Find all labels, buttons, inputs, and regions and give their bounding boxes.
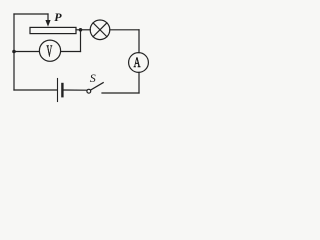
svg-text:A: A (134, 54, 141, 71)
lamp (90, 20, 110, 40)
resistor body of potentiometer P (30, 27, 76, 33)
battery long plate (57, 79, 59, 102)
wire voltmeter to junction drop (61, 51, 81, 53)
node junction at resistor output (79, 28, 83, 32)
switch S blade (91, 83, 104, 90)
wire left rail to battery (14, 89, 57, 91)
potentiometer P slider arrow (45, 14, 50, 27)
node junction on left rail (12, 50, 16, 54)
wire bottom right (102, 92, 139, 94)
wire ammeter down (138, 72, 140, 93)
wire resistor to lamp (76, 29, 90, 31)
wire left rail (13, 14, 15, 90)
wire right drop to ammeter (138, 30, 140, 53)
switch S pivot contact (87, 89, 91, 93)
svg-text:V: V (46, 41, 52, 60)
voltmeter V (39, 40, 60, 61)
wire junction down to voltmeter (80, 30, 82, 52)
wire top to slider (14, 13, 48, 15)
battery short plate (61, 84, 63, 96)
wire lamp to right corner (110, 29, 139, 31)
label V (46, 41, 52, 60)
label A (134, 54, 141, 71)
wire left rail to voltmeter (14, 51, 39, 53)
wire battery to switch (64, 89, 87, 91)
ammeter A (129, 53, 149, 73)
svg-text:P: P (54, 10, 62, 24)
svg-text:S: S (90, 71, 96, 85)
